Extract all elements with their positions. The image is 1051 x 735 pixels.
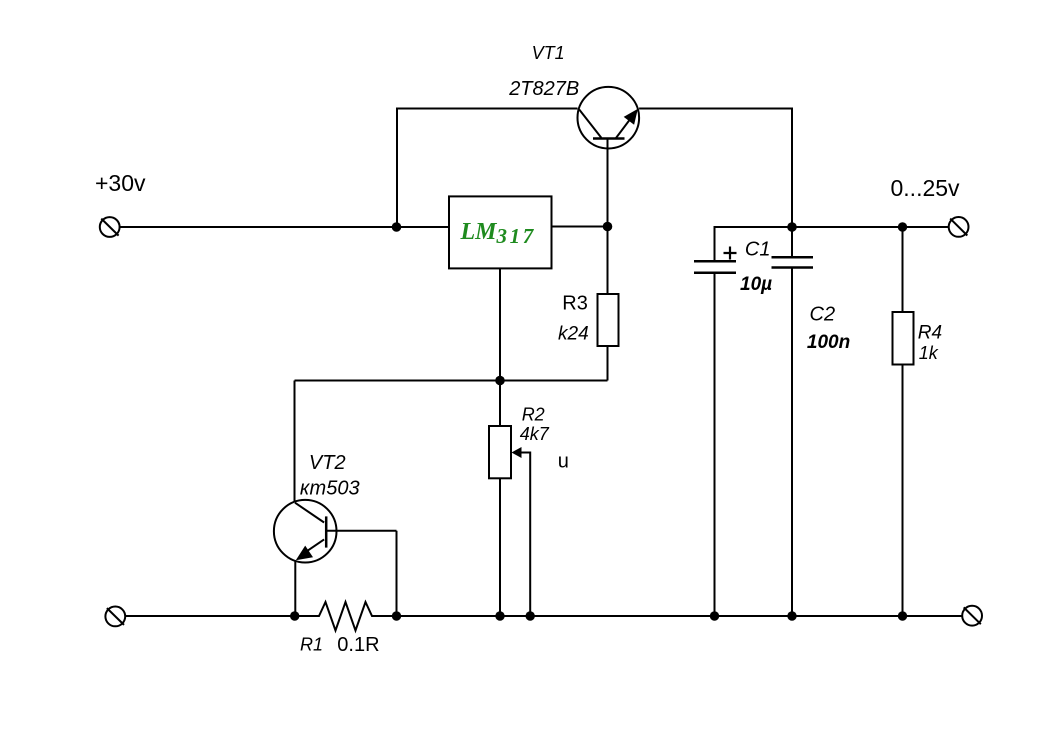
svg-text:R4: R4 bbox=[918, 323, 942, 344]
svg-text:VT1: VT1 bbox=[532, 43, 565, 63]
svg-text:+30v: +30v bbox=[95, 170, 146, 196]
svg-text:R1: R1 bbox=[300, 634, 323, 654]
svg-text:VT2: VT2 bbox=[309, 452, 346, 474]
svg-text:u: u bbox=[558, 450, 569, 472]
svg-text:C1: C1 bbox=[745, 239, 771, 261]
svg-text:0.1R: 0.1R bbox=[337, 634, 379, 656]
svg-text:R3: R3 bbox=[562, 292, 588, 314]
svg-text:2T827B: 2T827B bbox=[508, 78, 579, 100]
svg-text:кт503: кт503 bbox=[300, 478, 360, 500]
svg-text:C2: C2 bbox=[810, 304, 836, 326]
svg-text:LM317: LM317 bbox=[460, 219, 536, 248]
svg-text:0...25v: 0...25v bbox=[891, 175, 961, 201]
svg-text:1k: 1k bbox=[919, 343, 939, 363]
svg-text:10µ: 10µ bbox=[740, 274, 772, 295]
svg-text:k24: k24 bbox=[558, 323, 589, 344]
svg-text:R2: R2 bbox=[522, 404, 545, 424]
svg-text:4k7: 4k7 bbox=[520, 424, 550, 444]
svg-text:100n: 100n bbox=[807, 332, 850, 353]
